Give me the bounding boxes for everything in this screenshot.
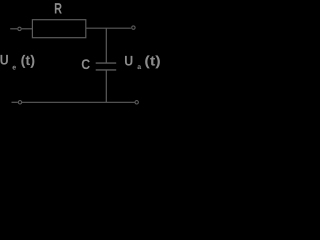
wire: input top stub [10, 28, 17, 30]
wire: input bottom stub [12, 101, 18, 103]
svg-text:U: U [124, 52, 133, 68]
wire: resistor to output terminal [86, 27, 131, 29]
svg-text:R: R [54, 0, 62, 17]
svg-text:a: a [137, 64, 141, 71]
wire: capacitor branch lower [105, 70, 107, 102]
input terminal bottom circle [18, 101, 21, 104]
wire: capacitor branch upper [105, 28, 107, 62]
RC low-pass filter schematic [0, 0, 161, 111]
svg-text:C: C [81, 56, 90, 72]
input terminal top circle [18, 27, 21, 30]
output terminal top circle [132, 26, 135, 29]
output terminal bottom circle [135, 101, 138, 104]
svg-text:(t): (t) [21, 52, 35, 68]
capacitor C plates [96, 63, 117, 70]
wire: input terminal to resistor [22, 28, 33, 30]
svg-text:(t): (t) [144, 53, 160, 69]
svg-text:e: e [12, 64, 16, 71]
resistor R box [32, 20, 85, 38]
label U_a(t) [124, 52, 161, 71]
label U_e(t) [0, 52, 35, 72]
wire: bottom rail [22, 101, 135, 103]
svg-text:U: U [0, 52, 9, 68]
